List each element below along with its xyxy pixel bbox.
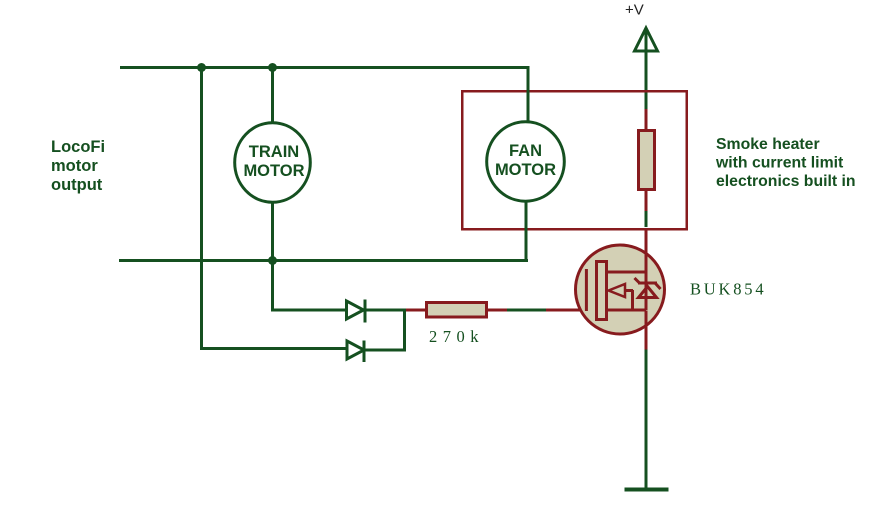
svg-text:BUK854: BUK854: [690, 280, 766, 299]
wire diode join vertical: [403, 309, 406, 352]
diode D2: [347, 341, 364, 359]
svg-text:+V: +V: [625, 2, 644, 19]
wire mosfet source (red): [645, 311, 648, 350]
mosfet Q1 body: [576, 245, 665, 334]
wire diode to source tap: [645, 284, 648, 311]
svg-text:motor: motor: [51, 157, 98, 175]
substrate arrow tail: [625, 289, 633, 292]
svg-text:MOTOR: MOTOR: [243, 162, 304, 180]
wire to gate resistor (red): [406, 309, 426, 312]
svg-text:MOTOR: MOTOR: [495, 161, 556, 179]
wire resistor to mosfet drain (red): [645, 189, 648, 211]
body diode triangle: [639, 287, 657, 298]
wire gate segment (green): [507, 309, 546, 312]
zener tick right: [656, 284, 661, 290]
wire diode D2 output: [366, 349, 407, 352]
svg-text:with current limit: with current limit: [715, 155, 844, 172]
svg-text:FAN: FAN: [509, 142, 542, 160]
junction dot: [268, 256, 277, 265]
junction dot: [268, 63, 277, 72]
svg-text:TRAIN: TRAIN: [249, 143, 299, 161]
motor M1 TRAIN: [235, 123, 311, 203]
junction dot: [197, 63, 206, 72]
svg-text:Smoke heater: Smoke heater: [716, 136, 820, 153]
diode D1: [347, 301, 364, 319]
wire second bus: [119, 259, 528, 262]
wire resistor out (red): [488, 309, 507, 312]
wire source to ground (green): [645, 350, 648, 489]
wire fan motor bottom: [525, 200, 528, 260]
mosfet gate line: [585, 269, 588, 311]
wire train motor top: [271, 66, 274, 124]
wire drain upper (red): [645, 109, 648, 130]
wire gate into mosfet (red): [546, 309, 586, 312]
wire diode D1 output: [367, 309, 407, 312]
mosfet drain vertical: [645, 244, 648, 284]
substrate arrow: [609, 284, 626, 297]
wire segment (green): [645, 211, 648, 227]
ground: [625, 488, 669, 492]
svg-text:electronics built in: electronics built in: [716, 173, 856, 190]
wire top bus: [120, 66, 530, 69]
zener tick left: [635, 278, 640, 283]
wire to lower diode: [200, 347, 347, 350]
resistor heater element: [639, 131, 655, 190]
power symbol +V arrow: [635, 28, 658, 51]
wire train motor bottom: [271, 201, 274, 260]
mosfet channel bar: [597, 262, 607, 320]
mosfet drain tap: [608, 271, 646, 274]
wire left branch vertical: [200, 66, 203, 350]
wire +V down: [645, 31, 648, 109]
motor M2 FAN: [487, 122, 565, 201]
svg-text:270k: 270k: [429, 327, 484, 346]
resistor R1 270k: [427, 303, 487, 318]
wire box to mosfet (red): [645, 230, 648, 245]
svg-text:output: output: [51, 176, 103, 194]
mosfet source tap: [608, 309, 646, 312]
wire to upper diode: [271, 259, 347, 312]
wire fan motor top: [527, 66, 530, 123]
body diode zener bar: [638, 282, 657, 285]
svg-text:LocoFi: LocoFi: [51, 138, 105, 156]
smoke heater box: [462, 91, 687, 229]
